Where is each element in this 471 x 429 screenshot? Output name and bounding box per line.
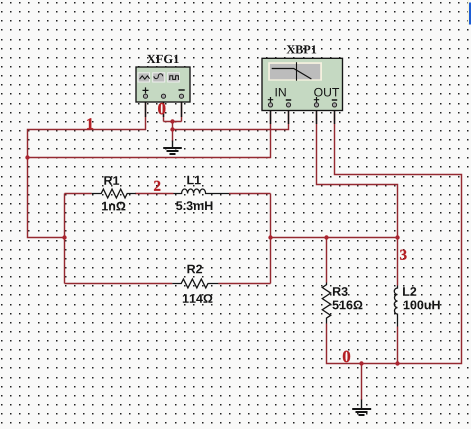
node junction (326.5,237.5) [324, 235, 328, 239]
node label 0 top [158, 103, 165, 114]
wire net0 from XFG1 common and minus terminals [164, 98, 289, 130]
label XFG1 [147, 55, 179, 63]
wire net3 from XBP1 OUT plus through jog to L2 branch [317, 108, 398, 364]
node label 3 [400, 250, 406, 260]
wire output rail net3 [271, 237, 398, 239]
label L1 [187, 176, 200, 185]
XBP1 terminal OUT plus [314, 103, 318, 107]
label IN [276, 88, 286, 96]
function generator XFG1 body [136, 67, 190, 102]
XBP1 terminal IN plus [268, 103, 272, 107]
label R3 [333, 287, 348, 296]
XBP1 IN minus sign [286, 99, 291, 101]
XFG1 triangle button [153, 73, 165, 82]
label L2 [403, 287, 416, 296]
wire net1 from XFG1 plus terminal [28, 98, 146, 238]
node junction (27.5,157.5) [25, 155, 29, 159]
ground GND1 [163, 141, 182, 155]
node junction (172.5,121.5) [170, 119, 174, 123]
resistor R3 [322, 283, 330, 324]
node junction (64.5,237.5) [62, 235, 66, 239]
bode plotter XBP1 body [262, 58, 343, 110]
wire right rail of filter loop [270, 194, 272, 284]
XFG1 terminal stubs [146, 98, 182, 117]
label R2 [187, 265, 202, 274]
window edge artifact top-right [468, 0, 469, 25]
XBP1 bode curve [272, 69, 312, 80]
XBP1 cursor line [296, 62, 298, 80]
XFG1 terminal common [161, 94, 165, 98]
XBP1 OUT minus sign [332, 99, 337, 101]
wire left rail of filter loop [64, 194, 66, 284]
node junction (270.5,237.5) [268, 235, 272, 239]
resistor R1 [92, 189, 136, 198]
XFG1 minus sign [179, 89, 185, 91]
XFG1 plus sign [143, 87, 149, 93]
value 516Ohm [332, 300, 362, 309]
node label 0 bottom [343, 351, 350, 362]
XFG1 square button [168, 73, 180, 82]
node label 2 [154, 181, 160, 191]
node junction (397.5,363.5) [395, 361, 399, 365]
wire net0 from XBP1 OUT minus to bottom ground rail [327, 108, 462, 364]
node label 1 [87, 118, 93, 129]
XBP1 screen [268, 62, 322, 80]
node junction (172.5,129.5) [170, 127, 174, 131]
wire R1 row segments [65, 193, 271, 195]
label XBP1 [287, 45, 317, 53]
wire ground GND1 stem [172, 130, 174, 142]
node junction (361.5,363.5) [359, 361, 363, 365]
XBP1 terminal stubs [271, 107, 335, 124]
value 5.3mH [176, 201, 212, 210]
label R1 [104, 176, 119, 185]
ground GND2 [352, 400, 371, 416]
wire net1 rail to XBP1 IN plus [28, 108, 271, 158]
XBP1 terminal IN minus [286, 103, 290, 107]
value 1nOhm [102, 202, 125, 211]
XFG1 terminal minus [179, 94, 183, 98]
value 114Ohm [183, 294, 213, 303]
node junction (397.5,237.5) [395, 235, 399, 239]
inductor L1 [174, 189, 230, 194]
XBP1 OUT plus sign [314, 97, 319, 102]
value 100uH [404, 300, 440, 309]
XBP1 terminal OUT minus [332, 103, 336, 107]
XFG1 sine button [138, 73, 150, 82]
resistor R2 [172, 279, 218, 288]
XFG1 terminal plus [143, 94, 147, 98]
wire ground GND2 stem [361, 364, 363, 401]
label OUT [314, 88, 339, 97]
wire R2 row segments [65, 283, 271, 285]
inductor L2 [394, 286, 397, 327]
XBP1 IN plus sign [268, 97, 273, 102]
